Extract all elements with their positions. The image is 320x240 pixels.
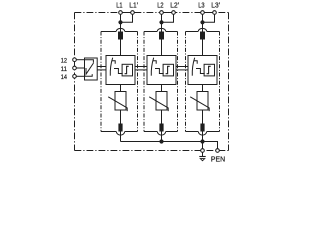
terminal L1': [129, 3, 138, 15]
disconnector bottom (L1): [118, 124, 122, 132]
disconnector top (L1 thermal disconnect): [118, 32, 123, 40]
junction node bus/L3: [200, 139, 204, 143]
wire to PEN bus: [202, 132, 204, 142]
terminal 11: [61, 66, 76, 73]
wire L2' branch: [162, 14, 174, 22]
wire linkage (double line): [177, 67, 188, 70]
terminal L3': [211, 3, 220, 15]
svg-text:L1: L1: [116, 3, 122, 10]
wire linkage (double line): [136, 67, 147, 70]
monitoring device L2: [147, 56, 176, 85]
wire ground drop: [202, 143, 204, 148]
disconnector top (L2 thermal disconnect): [159, 32, 164, 40]
wire monitoring box to varistor: [120, 85, 122, 92]
wire L3 down to junction: [202, 14, 204, 31]
junction node bus/L2: [159, 139, 163, 143]
wire disconnector to monitoring box: [202, 40, 204, 56]
wire L1-L1' link: [122, 12, 131, 14]
terminal PEN: [211, 149, 225, 164]
wire monitoring box to varistor: [202, 85, 204, 92]
wire L2-L2' link: [163, 12, 172, 14]
monitoring device L3: [188, 56, 217, 85]
terminal L1: [116, 3, 122, 15]
svg-text:L2: L2: [157, 3, 163, 10]
svg-text:11: 11: [61, 66, 68, 73]
wire monitoring box to varistor: [161, 85, 163, 92]
wire terminal 11: [76, 67, 84, 69]
varistor L1: [108, 92, 127, 112]
wire varistor to bottom disconnector: [161, 110, 163, 124]
svg-text:12: 12: [61, 58, 68, 65]
remote signalling contact (changeover switch): [85, 58, 98, 80]
ground symbol: [199, 152, 205, 161]
svg-text:14: 14: [61, 74, 68, 81]
monitoring device L1: [106, 56, 135, 85]
varistor L2: [149, 92, 168, 112]
disconnector top (L3 thermal disconnect): [200, 32, 205, 40]
wire varistor to bottom disconnector: [202, 110, 204, 124]
wire PEN bus: [121, 142, 218, 149]
wire L1' branch: [121, 14, 133, 22]
wire L3-L3' link: [204, 12, 213, 14]
wire L3' branch: [203, 14, 215, 22]
svg-text:PEN: PEN: [211, 156, 225, 163]
wire disconnector to monitoring box: [120, 40, 122, 56]
svg-text:L3: L3: [198, 3, 204, 10]
svg-text:L2’: L2’: [170, 3, 179, 10]
junction node L1: [118, 20, 122, 24]
wire L2 down to junction: [161, 14, 163, 31]
wire varistor to bottom disconnector: [120, 110, 122, 124]
wire L1 down to junction: [120, 14, 122, 31]
terminal 14: [61, 74, 76, 81]
junction node L2: [159, 20, 163, 24]
svg-text:L1’: L1’: [129, 3, 138, 10]
svg-text:L3’: L3’: [211, 3, 220, 10]
wire terminal 12: [76, 59, 84, 61]
wire to PEN bus: [161, 132, 163, 142]
terminal L3: [198, 3, 204, 15]
module box L2 (dash-dot enclosure): [144, 28, 178, 135]
junction node L3: [200, 20, 204, 24]
terminal earth: [201, 149, 205, 153]
wire linkage (double line): [97, 67, 105, 70]
module box L1 (dash-dot enclosure): [101, 28, 138, 135]
disconnector bottom (L3): [200, 124, 204, 132]
wire to PEN bus: [120, 132, 122, 142]
wire disconnector to monitoring box: [161, 40, 163, 56]
outer enclosure border (dash-dot): [75, 13, 229, 151]
module box L3 (dash-dot enclosure): [186, 28, 220, 135]
terminal 12: [61, 58, 76, 65]
varistor L3: [190, 92, 209, 112]
wire terminal 14: [76, 75, 84, 77]
terminal L2: [157, 3, 163, 15]
terminal L2': [170, 3, 179, 15]
disconnector bottom (L2): [159, 124, 163, 132]
